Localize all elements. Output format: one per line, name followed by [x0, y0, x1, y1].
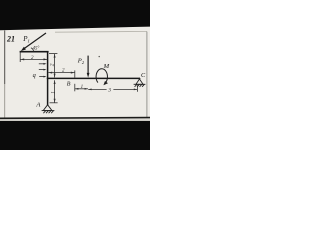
dim line 3 below beam	[88, 89, 137, 91]
support A pin triangle	[43, 105, 52, 111]
scan black band bottom	[0, 121, 150, 150]
svg-text:M: M	[103, 63, 110, 70]
svg-text:B: B	[67, 82, 71, 88]
svg-text:21: 21	[6, 35, 15, 44]
dim line 1 right of column lower	[54, 80, 56, 102]
force P1 arrow	[21, 33, 46, 51]
page left border lower	[4, 84, 6, 118]
page right border	[146, 32, 148, 118]
moment M arc	[96, 69, 108, 85]
distributed load q arrow 2	[39, 69, 47, 71]
ink speck	[99, 56, 100, 57]
frame top bar F	[20, 51, 49, 53]
support C roller triangle	[136, 79, 143, 84]
dim tick top right of column	[49, 53, 57, 55]
scan black band top	[0, 0, 150, 30]
dim tick below support C	[136, 85, 138, 92]
support A ground hatching	[42, 111, 55, 114]
dim tick bottom right of column	[50, 102, 58, 104]
svg-text:q: q	[33, 72, 36, 79]
faint page top edge line	[55, 30, 147, 33]
support C pin dot	[139, 78, 141, 80]
dim tick below beam at B	[74, 84, 76, 92]
svg-text:2: 2	[49, 63, 55, 66]
svg-text:45°: 45°	[33, 46, 40, 51]
distributed load q arrow 3	[39, 76, 46, 78]
dim line 2 vertical right of column	[54, 54, 56, 78]
svg-text:1: 1	[81, 85, 84, 90]
page left border upper	[4, 30, 6, 84]
gray smear above bottom band	[0, 119, 150, 121]
distributed load q arrow 1	[39, 63, 47, 65]
scan background	[0, 0, 150, 150]
page bottom edge line	[0, 117, 150, 120]
dim line 2 under top bar	[20, 58, 47, 60]
svg-text:3: 3	[107, 88, 111, 94]
dim line 1 below beam	[75, 88, 88, 90]
frame horizontal beam	[47, 77, 140, 79]
dim tick left of top bar	[19, 52, 21, 62]
dim tick above beam at B	[74, 70, 76, 77]
svg-text:1: 1	[51, 91, 57, 94]
frame vertical column	[47, 51, 49, 105]
force P2 arrow	[87, 56, 90, 78]
angle arc 45	[31, 48, 34, 52]
support C ground hatching	[134, 84, 146, 87]
dim line 2 above beam	[48, 72, 74, 74]
